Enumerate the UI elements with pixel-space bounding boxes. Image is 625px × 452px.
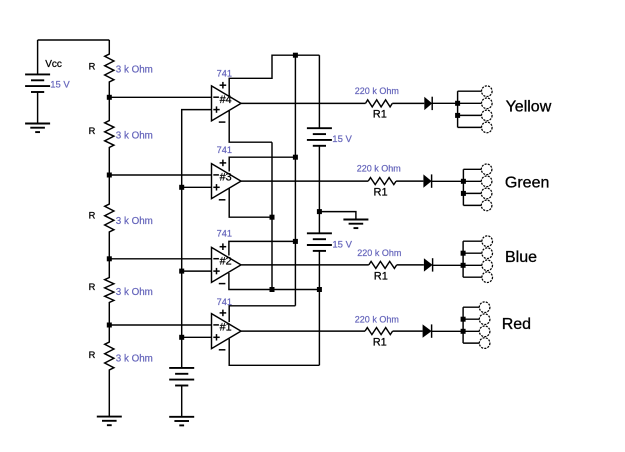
wire diode to LED cluster (Yellow row)	[432, 102, 457, 104]
svg-text:741: 741	[217, 229, 232, 239]
wire U4 V- pin	[229, 111, 272, 142]
wire V4 bottom lead	[181, 386, 183, 417]
wire stub to LED Yellow2	[458, 102, 482, 104]
LED lamp Green4	[481, 200, 492, 211]
resistor Rlad1 3 k Ohm	[105, 40, 114, 97]
wire stub to LED Blue1	[463, 240, 482, 242]
junction node B	[107, 173, 112, 178]
LED lamp Red3	[479, 326, 490, 337]
svg-text:3 k Ohm: 3 k Ohm	[116, 216, 153, 227]
wire battery V2 top lead	[318, 55, 320, 128]
junction signal rail	[179, 269, 184, 274]
svg-text:R1: R1	[374, 187, 388, 199]
op-amp U4 (741 #4)	[212, 82, 242, 122]
op-amp U1 (741 #1)	[212, 310, 242, 350]
wire Vcc battery top lead	[37, 40, 39, 74]
LED lamp Red1	[479, 302, 490, 313]
wire tap node A to op-amp inverting input	[109, 96, 211, 98]
junction Yellow bracket lower	[455, 113, 460, 118]
wire signal input rail	[182, 110, 212, 368]
LED lamp Green3	[481, 188, 492, 199]
LED lamp Blue3	[482, 260, 493, 271]
wire diode to LED cluster (Red row)	[432, 330, 464, 332]
svg-text:3 k Ohm: 3 k Ohm	[116, 65, 153, 76]
svg-text:3 k Ohm: 3 k Ohm	[116, 131, 153, 142]
wire V+ rail	[294, 55, 296, 306]
LED lamp Blue4	[482, 272, 493, 283]
junction V+ rail top	[293, 53, 298, 58]
wire U output to resistor R1 (Yellow row)	[241, 102, 366, 104]
wire LED bracket Green	[462, 169, 464, 205]
svg-text:R: R	[89, 210, 96, 220]
svg-text:Yellow: Yellow	[506, 98, 552, 115]
LED lamp Blue2	[482, 248, 493, 259]
LED lamp Yellow4	[482, 122, 493, 133]
wire U3 V+ pin	[229, 157, 295, 171]
wire battery V3 bottom lead	[318, 251, 320, 365]
svg-text:220 k Ohm: 220 k Ohm	[355, 86, 399, 96]
wire stub to LED Blue4	[463, 276, 482, 278]
svg-text:3 k Ohm: 3 k Ohm	[116, 287, 153, 298]
svg-text:R1: R1	[374, 271, 388, 283]
wire stub to LED Red1	[463, 306, 479, 308]
wire stub to LED Red4	[463, 342, 479, 344]
wire stub to LED Yellow3	[458, 114, 482, 116]
wire stub to LED Yellow1	[458, 90, 482, 92]
svg-text:R: R	[89, 61, 96, 71]
svg-text:15 V: 15 V	[50, 80, 70, 91]
wire R1 to diode (Red row)	[393, 330, 423, 332]
LED lamp Yellow1	[482, 86, 493, 97]
diode D (Yellow row)	[424, 97, 432, 110]
wire noninverting input branch	[182, 270, 212, 272]
svg-text:15 V: 15 V	[332, 239, 352, 250]
resistor Rlad4 3 k Ohm	[105, 259, 114, 325]
wire noninverting input branch	[182, 336, 212, 338]
wire U1 V- pin	[229, 339, 319, 366]
wire U2 V+ pin	[229, 241, 296, 255]
ground G3 below input source	[169, 417, 194, 426]
wire U4 V+ pin to +15V top rail	[229, 55, 319, 96]
wire tap node B to op-amp inverting input	[109, 174, 211, 176]
wire stub to LED Blue3	[463, 264, 482, 266]
junction Yellow bracket upper	[455, 101, 460, 106]
wire stub to LED Yellow4	[458, 126, 482, 128]
wire Vcc battery bottom lead	[37, 92, 39, 124]
op-amp U2 (741 #2)	[212, 243, 242, 283]
junction signal rail	[179, 335, 184, 340]
wire U output to resistor R1 (Green row)	[241, 180, 369, 182]
battery V1 (Vcc)	[25, 74, 50, 92]
ground G2 supply midpoint	[343, 220, 368, 229]
wire stub to LED Green3	[463, 192, 481, 194]
LED lamp Yellow2	[482, 98, 493, 109]
wire diode to LED cluster (Green row)	[432, 180, 464, 182]
junction Red bracket upper	[461, 317, 466, 322]
svg-text:R1: R1	[373, 337, 387, 349]
svg-text:#1: #1	[220, 322, 232, 334]
junction Green bracket lower	[461, 191, 466, 196]
diode D (Red row)	[423, 324, 432, 337]
svg-text:R: R	[89, 282, 96, 292]
wire V- rail	[271, 142, 273, 289]
wire U output to resistor R1 (Blue row)	[241, 264, 369, 266]
wire supply midpoint to ground	[319, 212, 356, 220]
junction node D	[107, 323, 112, 328]
LED lamp Blue1	[482, 236, 493, 247]
LED lamp Green1	[481, 164, 492, 175]
diode D (Blue row)	[424, 258, 433, 271]
junction node C	[107, 256, 112, 261]
resistor R1 220 k Ohm (Blue row)	[369, 261, 397, 268]
ground G1 below Vcc battery	[25, 124, 50, 133]
wire R1 to diode (Yellow row)	[392, 102, 424, 104]
LED lamp Green2	[481, 176, 492, 187]
svg-text:220 k Ohm: 220 k Ohm	[357, 248, 401, 258]
op-amp U3 (741 #3)	[212, 160, 242, 200]
wire stub to LED Blue2	[463, 252, 482, 254]
wire noninverting input branch	[182, 186, 212, 188]
wire stub to LED Green2	[463, 180, 481, 182]
wire stub to LED Red2	[463, 318, 479, 320]
junction U3 V-	[270, 215, 275, 220]
battery V2 (+15 V supply)	[307, 128, 332, 146]
svg-text:220 k Ohm: 220 k Ohm	[357, 164, 401, 174]
wire battery V2 bottom lead	[318, 146, 320, 234]
junction node A	[107, 95, 112, 100]
resistor R1 220 k Ohm (Yellow row)	[366, 100, 393, 107]
resistor Rlad2 3 k Ohm	[105, 97, 114, 175]
svg-text:15 V: 15 V	[332, 134, 352, 145]
svg-text:R: R	[89, 126, 96, 136]
junction supply midpoint	[317, 209, 322, 214]
svg-text:R: R	[89, 350, 96, 360]
wire LED bracket Red	[462, 307, 464, 343]
resistor R1 220 k Ohm (Red row)	[365, 328, 393, 335]
wire LED bracket Blue	[462, 241, 464, 277]
junction V- rail bottom	[270, 287, 275, 292]
svg-text:3 k Ohm: 3 k Ohm	[116, 354, 153, 365]
wire stub to LED Green1	[463, 168, 481, 170]
svg-text:Blue: Blue	[505, 249, 537, 266]
wire R1 to diode (Blue row)	[397, 264, 424, 266]
svg-text:R1: R1	[373, 109, 387, 121]
svg-text:#2: #2	[220, 255, 232, 267]
ground G4 ladder bottom	[97, 417, 122, 426]
battery V4 (input source)	[169, 368, 194, 386]
junction signal rail	[179, 185, 184, 190]
resistor R1 220 k Ohm (Green row)	[368, 178, 396, 185]
junction battery wire	[317, 287, 322, 292]
LED lamp Red2	[479, 314, 490, 325]
junction Red bracket lower	[461, 329, 466, 334]
wire tap node C to op-amp inverting input	[109, 258, 211, 260]
junction Blue bracket upper	[461, 251, 466, 256]
svg-text:Red: Red	[502, 316, 531, 333]
junction Blue bracket lower	[461, 263, 466, 268]
wire stub to LED Red3	[463, 330, 479, 332]
svg-text:741: 741	[217, 145, 232, 155]
wire top rail Vcc to ladder	[38, 39, 110, 41]
svg-text:220 k Ohm: 220 k Ohm	[355, 314, 399, 324]
wire U1 V+ pin	[229, 306, 295, 322]
wire LED bracket Yellow	[457, 91, 459, 127]
junction Green bracket upper	[461, 179, 466, 184]
wire U3 V- pin	[229, 189, 272, 218]
wire U2 V- pin	[229, 273, 320, 290]
junction U2 V+	[293, 239, 298, 244]
wire R1 to diode (Green row)	[396, 180, 423, 182]
battery V3 (-15 V supply)	[307, 233, 332, 251]
svg-text:741: 741	[217, 68, 232, 78]
wire tap node D to op-amp inverting input	[109, 324, 211, 326]
diode D (Green row)	[423, 174, 431, 187]
resistor Rlad5 3 k Ohm	[105, 325, 114, 417]
LED lamp Red4	[479, 338, 490, 349]
svg-text:Vcc: Vcc	[45, 59, 62, 70]
svg-text:Green: Green	[505, 174, 549, 191]
wire diode to LED cluster (Blue row)	[433, 264, 464, 266]
LED lamp Yellow3	[482, 110, 493, 121]
svg-text:#3: #3	[220, 172, 232, 184]
junction U3 V+	[293, 155, 298, 160]
resistor Rlad3 3 k Ohm	[105, 175, 114, 259]
wire stub to LED Green4	[463, 204, 481, 206]
wire U output to resistor R1 (Red row)	[241, 330, 365, 332]
